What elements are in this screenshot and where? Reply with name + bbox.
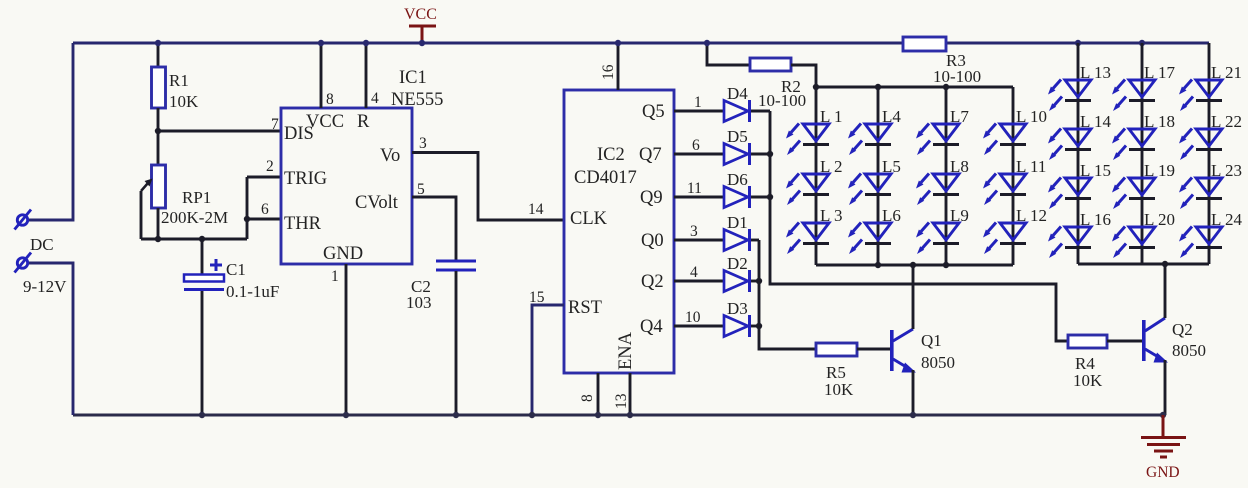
node: R1 top junction (155, 40, 161, 46)
LED L14 (1048, 129, 1091, 161)
svg-text:CVolt: CVolt (355, 193, 399, 213)
wire: bottom ground rail (73, 414, 1164, 417)
svg-text:RST: RST (568, 298, 602, 318)
svg-text:C1: C1 (226, 260, 246, 279)
svg-text:L 20: L 20 (1144, 210, 1175, 229)
diode D6 (724, 186, 750, 208)
transistor Q2 (1142, 264, 1168, 415)
wire: Q9 to D6 (674, 196, 723, 199)
pin 4 wire (365, 43, 368, 108)
svg-text:1: 1 (331, 268, 339, 285)
node: Q1 emitter on rail (910, 412, 916, 418)
LED L7 (916, 124, 959, 156)
svg-text:8050: 8050 (1172, 341, 1206, 360)
svg-text:Q2: Q2 (641, 272, 664, 292)
LED L13 (1048, 80, 1091, 112)
resistor R4 (1068, 335, 1142, 348)
wire: left LED group top bus (816, 86, 1013, 89)
pin 16 wire (617, 43, 620, 90)
svg-text:TRIG: TRIG (284, 169, 327, 189)
LED L3 (786, 223, 829, 255)
svg-text:Q9: Q9 (640, 188, 663, 208)
wire: right LED group bottom bus (1078, 263, 1209, 266)
svg-text:CD4017: CD4017 (574, 168, 637, 188)
svg-text:L6: L6 (882, 206, 901, 225)
svg-text:Q5: Q5 (642, 102, 665, 122)
resistor R1 (152, 43, 166, 131)
svg-text:GND: GND (1146, 464, 1180, 481)
terminal J1 (DC +) (15, 210, 32, 230)
svg-text:GND: GND (323, 244, 363, 264)
svg-text:103: 103 (406, 293, 432, 312)
svg-text:15: 15 (529, 289, 545, 306)
svg-text:8: 8 (326, 91, 334, 108)
svg-text:L4: L4 (882, 107, 901, 126)
wire: left vertical from DC+ to top rail (29, 43, 73, 220)
IC1 GND pin 1 wire (345, 264, 348, 415)
node: pin8 on rail (595, 412, 601, 418)
wire: right LED group columns (1078, 43, 1209, 264)
node: rail L17 junction (1139, 40, 1145, 46)
wire: Q5 to D4 (674, 110, 723, 113)
svg-text:10K: 10K (824, 380, 854, 399)
svg-text:200K-2M: 200K-2M (161, 208, 228, 227)
node: R1/RP1/DIS junction (155, 128, 161, 134)
LED L2 (786, 174, 829, 206)
diode D5 (724, 143, 750, 165)
wire: Q2 to D2 (674, 280, 723, 283)
node: top bus L1 (813, 84, 819, 90)
LED L16 (1048, 227, 1091, 259)
svg-text:CLK: CLK (570, 209, 608, 229)
LED L23 (1179, 178, 1222, 210)
potentiometer RP1 (141, 131, 166, 239)
svg-text:IC1: IC1 (399, 68, 427, 88)
svg-text:D1: D1 (727, 213, 748, 232)
LED L24 (1179, 227, 1222, 259)
node: THR junction (244, 216, 250, 222)
wire: Q4 to D3 (674, 325, 723, 328)
svg-text:D5: D5 (727, 127, 748, 146)
node: C1 top junction (199, 236, 205, 242)
wire: Vo pin3 to CLK pin14 (412, 153, 564, 221)
node: GND pin on rail (343, 412, 349, 418)
svg-text:9-12V: 9-12V (23, 277, 67, 296)
node: Q2 emitter on rail (1160, 412, 1166, 418)
pin 13 wire (IC2 bottom) (629, 373, 632, 415)
svg-text:THR: THR (284, 214, 322, 234)
node: C1 bottom on rail (199, 412, 205, 418)
svg-text:L5: L5 (882, 157, 901, 176)
LED L10 (983, 124, 1026, 156)
node: C2 bottom on rail (453, 412, 459, 418)
LED L17 (1112, 80, 1155, 112)
svg-text:7: 7 (271, 116, 279, 133)
svg-text:L 12: L 12 (1016, 206, 1047, 225)
node: RP1 bottom junction (155, 236, 161, 242)
node: pin8 on rail (318, 40, 324, 46)
ground symbol GND (1141, 415, 1186, 481)
svg-text:L 17: L 17 (1144, 63, 1176, 82)
node: RST on rail (529, 412, 535, 418)
svg-text:L 24: L 24 (1211, 210, 1243, 229)
LED L19 (1112, 178, 1155, 210)
LED L4 (848, 124, 891, 156)
pin 8 wire (320, 43, 323, 108)
wire: junction to DIS pin 7 (158, 130, 281, 133)
LED L15 (1048, 178, 1091, 210)
svg-text:L 1: L 1 (820, 107, 843, 126)
svg-text:L8: L8 (950, 157, 969, 176)
svg-text:NE555: NE555 (391, 90, 443, 110)
node: top bus L4 (875, 84, 881, 90)
node: rail L13 junction (1075, 40, 1081, 46)
svg-text:13: 13 (613, 393, 630, 409)
svg-text:DC: DC (30, 235, 54, 254)
wire: top VCC rail (73, 42, 1209, 45)
diode D2 (724, 270, 750, 292)
wire: RP1 bottom bus to TRIG/THR vertical (141, 238, 247, 241)
node: pin13 on rail (627, 412, 633, 418)
svg-text:2: 2 (266, 158, 274, 175)
svg-text:L 14: L 14 (1080, 112, 1112, 131)
node: D2 junction (756, 278, 762, 284)
svg-text:DIS: DIS (284, 124, 314, 144)
wire: left LED group bottom bus (816, 264, 1013, 267)
svg-text:L 15: L 15 (1080, 161, 1111, 180)
svg-text:Q7: Q7 (639, 145, 662, 165)
node: R2 branch on rail (704, 40, 710, 46)
svg-text:10K: 10K (169, 92, 199, 111)
pin 8 wire (IC2 bottom) (597, 373, 600, 415)
wire: left LED group columns (816, 87, 1013, 265)
wire: Q7 to D5 (674, 153, 723, 156)
LED L21 (1179, 80, 1222, 112)
svg-text:L 21: L 21 (1211, 63, 1242, 82)
capacitor C1 (184, 239, 224, 415)
svg-text:10K: 10K (1073, 371, 1103, 390)
svg-text:VCC: VCC (404, 6, 437, 23)
svg-text:8050: 8050 (921, 353, 955, 372)
svg-text:Q4: Q4 (640, 317, 663, 337)
wire: CVolt pin5 to C2 (412, 197, 456, 260)
svg-text:IC2: IC2 (597, 145, 625, 165)
svg-text:L 13: L 13 (1080, 63, 1111, 82)
wire: TRIG/THR link (247, 177, 281, 239)
svg-text:1: 1 (694, 94, 702, 111)
LED L9 (916, 223, 959, 255)
svg-text:D2: D2 (727, 254, 748, 273)
svg-text:L7: L7 (950, 107, 969, 126)
node: D5 junction (767, 151, 773, 157)
resistor R2 (707, 43, 816, 87)
svg-text:4: 4 (690, 264, 698, 281)
node: VCC on rail (419, 40, 425, 46)
diode D3 (724, 315, 750, 337)
svg-text:10-100: 10-100 (758, 91, 806, 110)
LED L6 (848, 223, 891, 255)
svg-text:ENA: ENA (616, 331, 636, 370)
svg-text:L 19: L 19 (1144, 161, 1175, 180)
svg-text:RP1: RP1 (182, 188, 211, 207)
LED L8 (916, 174, 959, 206)
svg-text:L9: L9 (950, 206, 969, 225)
svg-text:L 3: L 3 (820, 206, 843, 225)
svg-text:0.1-1uF: 0.1-1uF (226, 282, 279, 301)
LED L18 (1112, 129, 1155, 161)
node: top bus L7 (943, 84, 949, 90)
node: bottom bus L7 (943, 262, 949, 268)
node: pin4 on rail (363, 40, 369, 46)
svg-text:Q2: Q2 (1172, 320, 1193, 339)
svg-text:6: 6 (692, 137, 700, 154)
LED L11 (983, 174, 1026, 206)
wire: left vertical from DC- to bottom rail (29, 263, 73, 415)
LED L20 (1112, 227, 1155, 259)
diode D1 (724, 229, 750, 251)
svg-text:L 16: L 16 (1080, 210, 1111, 229)
svg-text:14: 14 (528, 201, 544, 218)
svg-text:R1: R1 (169, 71, 189, 90)
pin names inside IC1 (284, 112, 400, 264)
svg-text:10-100: 10-100 (933, 67, 981, 86)
LED L12 (983, 223, 1026, 255)
svg-text:D6: D6 (727, 170, 748, 189)
svg-text:L 11: L 11 (1016, 157, 1046, 176)
svg-text:L 2: L 2 (820, 157, 843, 176)
op-amp / timer IC1 NE555 box (281, 108, 412, 264)
svg-text:Q0: Q0 (641, 231, 664, 251)
LED L22 (1179, 129, 1222, 161)
svg-text:4: 4 (371, 90, 379, 107)
svg-text:5: 5 (417, 181, 425, 198)
svg-text:16: 16 (600, 64, 617, 80)
svg-text:D4: D4 (727, 84, 748, 103)
wire: Q0 to D1 (674, 239, 723, 242)
svg-text:L 18: L 18 (1144, 112, 1175, 131)
wire: D4-D6 cathode bus to R4 (751, 111, 1068, 341)
svg-text:R: R (357, 112, 370, 132)
svg-text:D3: D3 (727, 299, 748, 318)
svg-text:6: 6 (261, 201, 269, 218)
svg-text:8: 8 (579, 394, 596, 402)
node: pin16 on rail (615, 40, 621, 46)
resistor R5 (816, 343, 890, 356)
wire: D1-D3 cathode bus to R5 (751, 240, 816, 349)
transistor Q1 (890, 265, 916, 415)
power VCC symbol (404, 6, 437, 44)
svg-text:L 22: L 22 (1211, 112, 1242, 131)
svg-text:L 10: L 10 (1016, 107, 1047, 126)
counter IC2 CD4017 box (564, 90, 674, 373)
resistor R3 (903, 37, 946, 51)
svg-text:11: 11 (687, 180, 702, 197)
node: D6 junction (767, 194, 773, 200)
node: Q1 collector junction (910, 262, 916, 268)
node: bottom bus L4 (875, 262, 881, 268)
svg-text:3: 3 (419, 135, 427, 152)
terminal J2 (DC -) (15, 253, 32, 273)
pin 15 RST wire (532, 305, 564, 415)
svg-text:3: 3 (690, 223, 698, 240)
svg-text:Vo: Vo (380, 146, 400, 166)
node: D3 junction (756, 323, 762, 329)
LED L5 (848, 174, 891, 206)
svg-text:L 23: L 23 (1211, 161, 1242, 180)
svg-text:Q1: Q1 (921, 331, 942, 350)
diode D4 (724, 100, 750, 122)
capacitor C2 (436, 261, 476, 415)
node: Q2 collector junction (1162, 261, 1168, 267)
LED L1 (786, 124, 829, 156)
svg-text:10: 10 (685, 309, 701, 326)
